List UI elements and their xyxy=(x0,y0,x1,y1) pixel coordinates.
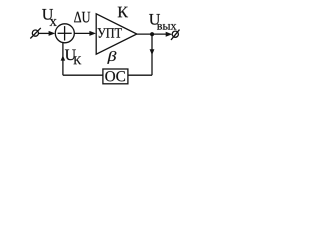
wire up to summer with up arrow xyxy=(61,43,66,75)
feedback block ОС xyxy=(103,69,128,84)
label K gain xyxy=(118,7,128,17)
wire OC box to left corner xyxy=(63,74,103,76)
output terminal X2 xyxy=(171,30,180,40)
label Uk xyxy=(65,50,81,65)
label UPT xyxy=(98,28,122,38)
label Ux xyxy=(42,9,57,26)
wire input to summer with arrow xyxy=(39,31,56,36)
label OC xyxy=(105,71,125,81)
label dU xyxy=(74,12,90,23)
wire node to OC box xyxy=(128,74,152,76)
label Uvyh xyxy=(149,14,176,30)
amplifier УПТ triangle xyxy=(96,14,137,54)
wire feedback drop with down arrow xyxy=(150,34,155,75)
wire amplifier to output terminal with arrow xyxy=(137,32,173,37)
wire summer to amplifier with arrow xyxy=(74,31,96,36)
node junction dot xyxy=(150,32,154,36)
input terminal X1 xyxy=(30,28,41,39)
label beta xyxy=(107,51,116,64)
summing junction xyxy=(55,24,74,43)
